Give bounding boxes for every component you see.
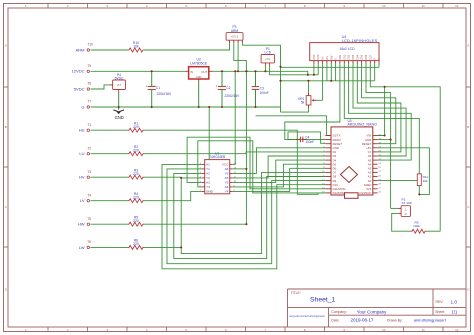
svg-text:12: 12 (455, 328, 459, 332)
svg-text:Y5: Y5 (225, 181, 229, 185)
terminal T1 net HU (79, 123, 92, 133)
svg-text:220U/16V: 220U/16V (157, 92, 172, 96)
wire LCD DB3 to A6 (353, 64, 406, 157)
svg-text:A2: A2 (206, 172, 210, 176)
svg-text:+5 T: +5 T (117, 84, 122, 87)
capacitor C1 220U/16V (145, 71, 172, 107)
svg-text:VDD: VDD (317, 54, 320, 59)
wire LCD RW (330, 64, 332, 81)
connector P1 LCD (261, 47, 275, 66)
svg-text:DB6: DB6 (365, 54, 368, 59)
svg-text:DB4: DB4 (356, 54, 359, 59)
svg-text:DB3: DB3 (352, 54, 355, 59)
svg-text:220: 220 (133, 195, 139, 199)
svg-text:LW: LW (79, 245, 85, 250)
svg-text:Y2: Y2 (206, 176, 210, 180)
wire vertical x280.5 (280, 67, 282, 112)
wire U1 Y5 to D4 (233, 160, 326, 182)
svg-text:HV: HV (79, 175, 85, 180)
wire U1 Y3 loop to D12 (198, 141, 322, 193)
svg-text:A4: A4 (225, 185, 229, 189)
connector P2 ST 10K (398, 198, 413, 217)
svg-text:Y4: Y4 (225, 190, 229, 194)
wire +5V to R11 bottom (378, 148, 430, 195)
wire P4 to ground (118, 93, 120, 108)
svg-text:A1: A1 (206, 163, 210, 167)
wire U1 Y4 to D6 (233, 168, 326, 191)
svg-text:Your Company: Your Company (357, 309, 387, 314)
wire LCD K to rail67 (378, 64, 380, 68)
svg-text:T7: T7 (87, 100, 91, 104)
wire LCD V0 to VR1 wiper (322, 64, 324, 101)
resistor R9 100k (411, 220, 427, 233)
svg-text:220: 220 (133, 219, 139, 223)
svg-text:LCD: LCD (264, 51, 271, 55)
svg-text:Date:: Date: (331, 318, 339, 322)
svg-text:T6: T6 (87, 240, 91, 244)
resistor R6 220 (128, 239, 145, 250)
wire R11 bottom (418, 186, 420, 195)
svg-text:+: + (216, 84, 218, 88)
svg-text:DB5: DB5 (361, 54, 364, 59)
resistor R2 220 (128, 145, 145, 156)
svg-text:LU: LU (79, 151, 84, 156)
svg-text:16x2 LCD: 16x2 LCD (339, 47, 355, 51)
svg-text:ARDUINO_NANO: ARDUINO_NANO (348, 123, 378, 127)
svg-text:easyeda.com/aniruthsingprasert: easyeda.com/aniruthsingprasert (289, 315, 325, 318)
svg-text:B: B (5, 125, 7, 129)
svg-text:RW: RW (330, 55, 333, 60)
wire U2 GND pin to ground rail (198, 82, 200, 107)
terminal T10 net ARM (76, 43, 94, 53)
wire LCD E (335, 64, 337, 81)
svg-text:5k: 5k (301, 101, 305, 105)
wire +5V rail from U2 OUT (212, 71, 308, 75)
wire LCD DB0 to D0/RX (285, 64, 340, 140)
connector P4 5VDC (110, 73, 126, 92)
resistor R1 220 (128, 121, 145, 132)
wire rail y80.8 (281, 80, 375, 82)
capacitor C3 100nF (252, 71, 269, 107)
svg-text:GND: GND (115, 115, 124, 120)
svg-text:5VDC: 5VDC (74, 86, 85, 91)
svg-text:Company:: Company: (331, 310, 347, 314)
wire HV net (91, 176, 128, 178)
svg-text:74HC04EB: 74HC04EB (209, 155, 225, 159)
wire P2 pin2 to R9 (392, 213, 411, 231)
svg-text:10: 10 (382, 328, 386, 332)
svg-text:A: A (467, 43, 469, 47)
svg-text:TITLE:: TITLE: (291, 291, 301, 295)
wire LW net (91, 246, 128, 248)
wire ARM net (91, 49, 128, 51)
svg-text:1.0: 1.0 (451, 300, 458, 305)
svg-text:220: 220 (133, 125, 139, 129)
svg-text:T4: T4 (87, 193, 91, 197)
wire VR1 top to rail (308, 81, 310, 93)
wire LCD DB1 to R11 top (344, 64, 419, 174)
svg-text:ST 10K: ST 10K (402, 201, 413, 205)
wire U1 A2 loop to D8 (174, 173, 326, 258)
wire U1 A4 to D5 (233, 164, 326, 187)
capacitor C4 100nF (296, 136, 314, 145)
wire LCD DB4 to A7 (357, 64, 401, 152)
svg-text:Y6: Y6 (225, 172, 229, 176)
wire U1 top pin to ground rail (208, 107, 210, 160)
svg-text:220: 220 (133, 242, 139, 246)
svg-text:ARM: ARM (76, 47, 85, 52)
wire 12VDC net (91, 70, 186, 72)
wire HU net (91, 129, 128, 131)
svg-text:aniruthsingprasert: aniruthsingprasert (414, 318, 447, 323)
terminal T7 net G (81, 100, 91, 110)
connector P3 ARM (226, 25, 243, 43)
wire VR1 bottom (281, 108, 309, 112)
title block (288, 289, 467, 327)
svg-text:B: B (467, 125, 469, 129)
svg-text:5VDC: 5VDC (115, 77, 124, 81)
svg-text:GND: GND (206, 190, 214, 194)
svg-text:11: 11 (422, 328, 425, 332)
terminal T6 net LW (79, 240, 92, 250)
svg-text:+: + (145, 84, 147, 88)
wire LCD DB6 to GND pin (366, 64, 391, 140)
wire R9 to far right vertical (427, 230, 441, 232)
resistor R10 10k (128, 41, 145, 52)
arduino logo diamond (341, 167, 358, 183)
svg-text:G: G (81, 104, 84, 109)
wire P1 pin2 rail (270, 66, 319, 75)
svg-text:HW: HW (78, 222, 85, 227)
svg-text:A6: A6 (225, 167, 229, 171)
svg-text:100k: 100k (413, 224, 420, 228)
svg-text:Y1: Y1 (206, 167, 210, 171)
wire U1 Y6 to Arduino GND (233, 148, 326, 174)
wire bridge to D1/TX (256, 116, 332, 136)
svg-text:DB2: DB2 (348, 54, 351, 59)
svg-text:LM7805CE: LM7805CE (190, 61, 208, 65)
wire LCD DB7 rail to VIN and R9 (370, 64, 440, 232)
svg-text:T5: T5 (87, 217, 91, 221)
svg-text:T2: T2 (87, 146, 91, 150)
wire U1 Y1 loop to D9 (167, 169, 325, 264)
svg-text:10k: 10k (133, 45, 139, 49)
svg-text:220: 220 (133, 172, 139, 176)
wire LU net (91, 153, 128, 155)
svg-text:11: 11 (422, 4, 425, 8)
svg-text:220: 220 (133, 148, 139, 152)
wire LCD VDD (317, 64, 319, 75)
svg-text:REV.: REV. (436, 300, 444, 304)
terminal T2 net LU (79, 146, 91, 156)
svg-text:A: A (5, 43, 7, 47)
svg-text:10k: 10k (423, 179, 428, 183)
svg-text:Sheet_1: Sheet_1 (310, 297, 336, 304)
svg-text:C2: C2 (226, 86, 230, 90)
svg-text:+5 G S: +5 G S (231, 37, 239, 39)
wire LCD A to rail (374, 64, 376, 81)
svg-text:VSS: VSS (313, 54, 316, 59)
svg-text:T1: T1 (87, 123, 91, 127)
wire P3 pin2 jog (234, 43, 247, 60)
terminal T8 net 5VDC (74, 82, 91, 92)
terminal T9 net 12VDC (72, 64, 92, 74)
wire U1 A5 to D3 (233, 156, 326, 178)
IC U1 74HC04EB (200, 152, 237, 194)
svg-text:T10: T10 (87, 43, 93, 47)
svg-text:LV: LV (80, 198, 85, 203)
svg-text:2019-08-17: 2019-08-17 (351, 318, 375, 323)
svg-text:100nF: 100nF (260, 91, 269, 95)
wire P3 pin4 to rail67 (242, 43, 280, 66)
terminal T5 net HW (78, 217, 91, 227)
svg-text:HU: HU (79, 128, 85, 133)
wire U1 Y2 loop to D7 (181, 172, 325, 253)
resistor R11 10k (417, 174, 428, 186)
wire GND pin to P2 pin1 (378, 139, 391, 141)
wire LV net (91, 200, 128, 202)
svg-text:C4: C4 (305, 136, 309, 140)
wire U1 A1 loop to D10 (162, 164, 325, 268)
svg-text:RS: RS (326, 56, 329, 60)
resistor R4 220 (128, 192, 145, 203)
wire GND rail (91, 106, 281, 108)
svg-text:C1: C1 (156, 86, 160, 90)
arduino usb connector (345, 193, 359, 199)
IC U3 ARDUINO_NANO (322, 119, 381, 199)
svg-text:VCC: VCC (222, 163, 229, 167)
wire U1 A6 / HW vertical (233, 168, 247, 170)
wire LCD RS (326, 64, 328, 81)
wire A0 to R11 (378, 180, 418, 182)
svg-text:100nF: 100nF (305, 140, 314, 144)
svg-text:T8: T8 (87, 82, 91, 86)
terminal T3 net HV (79, 170, 91, 180)
svg-text:DB0: DB0 (339, 54, 342, 59)
svg-text:12VDC: 12VDC (72, 69, 85, 74)
potentiometer VR1 5k (298, 93, 317, 108)
wire LCD VSS (313, 64, 315, 75)
ground symbol GND (113, 107, 124, 120)
wire C4 loop to RESET (288, 132, 325, 143)
svg-text:IN: IN (190, 70, 193, 74)
svg-text:Y3: Y3 (206, 185, 210, 189)
svg-text:DB7: DB7 (369, 54, 372, 59)
wire P3 pin3 to +5V rail (237, 43, 239, 71)
svg-text:GND: GND (196, 76, 202, 79)
terminal T4 net LV (80, 193, 91, 203)
svg-text:D13/SCK: D13/SCK (360, 191, 372, 195)
capacitor C2 220U/16V (216, 71, 240, 107)
svg-text:Drawn By:: Drawn By: (387, 318, 403, 322)
svg-text:A3: A3 (206, 181, 210, 185)
IC U4 LCD-16PINHOLES (310, 35, 381, 63)
svg-text:DB1: DB1 (343, 54, 346, 59)
svg-text:10: 10 (382, 4, 386, 8)
svg-text:T9: T9 (87, 64, 91, 68)
voltage regulator U2 LM7805CE (186, 58, 212, 82)
wire U1 VCC up to +5V rail (233, 71, 236, 164)
resistor R3 220 (128, 168, 145, 179)
svg-text:+5 G: +5 G (265, 59, 270, 61)
wire HW net (91, 223, 128, 225)
svg-text:12: 12 (455, 4, 459, 8)
svg-text:220U/16V: 220U/16V (225, 94, 240, 98)
wire U1 A3 loop to D11 (187, 137, 325, 189)
svg-text:T3: T3 (87, 170, 91, 174)
svg-text:OUT: OUT (201, 70, 207, 74)
svg-text:Sheet:: Sheet: (435, 310, 445, 314)
node junctions (118, 66, 421, 249)
wire rail67 (281, 66, 380, 68)
svg-text:A5: A5 (225, 176, 229, 180)
svg-text:1/1: 1/1 (452, 309, 458, 314)
wire LCD DB5 to RESET (362, 64, 396, 144)
resistor R5 220 (128, 215, 145, 226)
wire P1 pin1 to +5V rail (264, 66, 266, 72)
wire 5VDC net (91, 85, 110, 89)
wire VR1 wiper to LCD V0 (317, 99, 322, 101)
wire LCD DB2 to A5 (349, 64, 412, 161)
